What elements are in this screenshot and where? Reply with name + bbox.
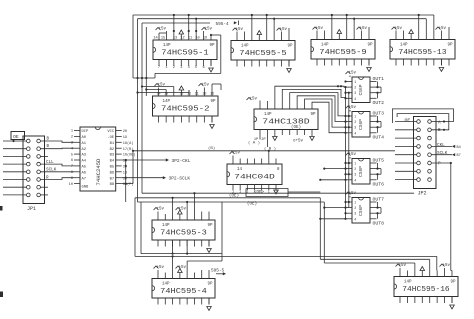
svg-text:17(B): 17(B) bbox=[123, 147, 134, 152]
svg-text:1: 1 bbox=[71, 130, 73, 134]
svg-text:+5v: +5v bbox=[399, 264, 407, 268]
svg-text:9P: 9P bbox=[210, 100, 216, 104]
svg-text:15: 15 bbox=[161, 37, 165, 41]
svg-text:A7: A7 bbox=[82, 177, 87, 181]
svg-text:16: 16 bbox=[210, 93, 214, 97]
svg-text:OUT2: OUT2 bbox=[373, 100, 385, 106]
svg-text:DIP: DIP bbox=[82, 130, 90, 134]
svg-text:1: 1 bbox=[268, 191, 270, 195]
svg-text:o+5v: o+5v bbox=[293, 140, 304, 144]
svg-text:+5v: +5v bbox=[205, 28, 213, 32]
svg-text:2: 2 bbox=[354, 167, 356, 171]
svg-text:+5v: +5v bbox=[349, 192, 357, 196]
svg-text:A3: A3 bbox=[82, 154, 87, 158]
svg-text:SCLK: SCLK bbox=[437, 151, 448, 156]
svg-text:+5v: +5v bbox=[360, 27, 368, 31]
svg-text:CS6P: CS6P bbox=[358, 84, 364, 95]
svg-text:14P: 14P bbox=[400, 44, 408, 48]
svg-text:OE: OE bbox=[13, 134, 19, 140]
svg-text:OUT7: OUT7 bbox=[373, 197, 385, 203]
svg-text:74HC595-9: 74HC595-9 bbox=[319, 49, 366, 57]
svg-text:+5v: +5v bbox=[179, 266, 187, 270]
svg-text:14P: 14P bbox=[241, 45, 249, 49]
svg-text:R: R bbox=[46, 175, 49, 180]
svg-text:2: 2 bbox=[173, 66, 175, 70]
svg-text:9P: 9P bbox=[367, 44, 373, 48]
svg-text:74HC595-3: 74HC595-3 bbox=[160, 229, 207, 237]
svg-text:19: 19 bbox=[123, 136, 127, 140]
svg-text:16: 16 bbox=[203, 37, 207, 41]
svg-text:13: 13 bbox=[173, 37, 177, 41]
svg-text:+5v: +5v bbox=[349, 153, 357, 157]
svg-text:12: 12 bbox=[187, 93, 191, 97]
svg-text:SCLK: SCLK bbox=[46, 168, 57, 173]
svg-text:+5v: +5v bbox=[250, 98, 258, 102]
svg-text:74HC595-2: 74HC595-2 bbox=[161, 105, 209, 113]
svg-text:74HC245D: 74HC245D bbox=[95, 158, 102, 185]
svg-text:1: 1 bbox=[354, 162, 356, 166]
svg-text:16(OE): 16(OE) bbox=[123, 153, 136, 158]
svg-text:1: 1 bbox=[354, 115, 356, 119]
svg-text:3: 3 bbox=[354, 126, 356, 130]
svg-text:P: P bbox=[438, 162, 441, 167]
svg-text:+5v: +5v bbox=[349, 106, 357, 110]
svg-text:CS6P: CS6P bbox=[358, 119, 364, 130]
svg-text:2: 2 bbox=[71, 136, 73, 140]
svg-text:B: B bbox=[438, 128, 441, 133]
svg-text:( B ): ( B ) bbox=[264, 147, 276, 152]
svg-text:20: 20 bbox=[123, 130, 127, 134]
svg-text:74HC138D: 74HC138D bbox=[262, 118, 309, 126]
svg-text:1: 1 bbox=[165, 66, 167, 70]
svg-text:14P: 14P bbox=[162, 224, 170, 228]
svg-text:9P: 9P bbox=[207, 283, 213, 287]
svg-text:2: 2 bbox=[354, 120, 356, 124]
svg-text:+5v: +5v bbox=[159, 28, 167, 32]
svg-text:18(A): 18(A) bbox=[123, 141, 134, 146]
svg-text:OUT5: OUT5 bbox=[373, 158, 385, 164]
svg-text:11(P): 11(P) bbox=[123, 182, 134, 187]
svg-text:<OE>: <OE> bbox=[254, 190, 265, 195]
svg-text:6: 6 bbox=[71, 159, 73, 163]
svg-text:9P: 9P bbox=[447, 44, 453, 48]
svg-text:1: 1 bbox=[246, 191, 248, 195]
svg-text:A6: A6 bbox=[82, 171, 87, 175]
svg-text:1: 1 bbox=[239, 191, 241, 195]
svg-text:3: 3 bbox=[180, 66, 182, 70]
svg-text:OUT1: OUT1 bbox=[373, 76, 385, 82]
svg-text:OUT3: OUT3 bbox=[373, 111, 385, 117]
svg-text:B7: B7 bbox=[457, 154, 461, 158]
svg-text:3P2-CKL: 3P2-CKL bbox=[172, 158, 191, 164]
svg-text:9P: 9P bbox=[207, 224, 213, 228]
svg-text:14P: 14P bbox=[404, 281, 412, 285]
svg-text:595-5: 595-5 bbox=[211, 269, 225, 274]
svg-text:+5v: +5v bbox=[349, 72, 357, 76]
svg-text:5: 5 bbox=[71, 153, 73, 157]
svg-text:2P: 2P bbox=[261, 138, 265, 142]
svg-text:-OE: -OE bbox=[107, 136, 115, 140]
svg-text:+5v: +5v bbox=[157, 208, 165, 212]
svg-text:4: 4 bbox=[354, 97, 356, 101]
svg-text:B7: B7 bbox=[110, 177, 115, 181]
svg-text:3: 3 bbox=[354, 212, 356, 216]
svg-text:+5v: +5v bbox=[233, 152, 241, 156]
svg-text:VCC: VCC bbox=[107, 130, 115, 134]
svg-text:1: 1 bbox=[354, 80, 356, 84]
svg-text:14P: 14P bbox=[264, 113, 272, 117]
svg-text:OE: OE bbox=[405, 118, 411, 124]
svg-text:A0: A0 bbox=[82, 136, 87, 140]
svg-text:B1: B1 bbox=[110, 142, 115, 146]
svg-text:B4: B4 bbox=[457, 146, 461, 150]
svg-text:A2: A2 bbox=[82, 148, 87, 152]
svg-text:OUT8: OUT8 bbox=[373, 221, 385, 227]
svg-text:74HC04D: 74HC04D bbox=[234, 173, 275, 180]
svg-text:B4: B4 bbox=[110, 160, 115, 164]
svg-text:3: 3 bbox=[354, 91, 356, 95]
svg-text:+5v: +5v bbox=[158, 84, 166, 88]
svg-text:A4: A4 bbox=[82, 160, 87, 164]
svg-text:14: 14 bbox=[237, 168, 243, 172]
svg-text:9P: 9P bbox=[209, 44, 215, 48]
svg-text:11: 11 bbox=[195, 93, 199, 97]
svg-text:+5v: +5v bbox=[439, 27, 447, 31]
svg-text:11: 11 bbox=[188, 37, 192, 41]
svg-text:3P2-SCLK: 3P2-SCLK bbox=[169, 176, 191, 182]
svg-text:74HC595-13: 74HC595-13 bbox=[398, 49, 446, 57]
svg-text:14P: 14P bbox=[162, 283, 170, 287]
svg-text:CLL: CLL bbox=[46, 160, 54, 165]
svg-text:10: 10 bbox=[195, 37, 199, 41]
svg-text:( A ): ( A ) bbox=[248, 141, 260, 146]
svg-text:(OE): (OE) bbox=[291, 125, 301, 130]
svg-text:B6: B6 bbox=[110, 171, 115, 175]
svg-text:+5v: +5v bbox=[202, 84, 210, 88]
svg-text:14: 14 bbox=[156, 93, 160, 97]
svg-text:B3: B3 bbox=[110, 154, 115, 158]
svg-text:A1: A1 bbox=[82, 142, 87, 146]
svg-text:595-4: 595-4 bbox=[216, 22, 230, 27]
svg-text:B8: B8 bbox=[110, 183, 115, 187]
svg-text:74HC595-1: 74HC595-1 bbox=[161, 49, 208, 57]
svg-text:4: 4 bbox=[354, 217, 356, 221]
svg-text:CS6P: CS6P bbox=[358, 166, 364, 177]
svg-text:4: 4 bbox=[354, 178, 356, 182]
svg-text:A5: A5 bbox=[82, 166, 87, 170]
svg-text:A: A bbox=[438, 120, 441, 125]
svg-text:OUT4: OUT4 bbox=[373, 135, 385, 141]
svg-text:74HC595-16: 74HC595-16 bbox=[402, 286, 449, 294]
svg-text:(B): (B) bbox=[208, 146, 215, 151]
svg-text:9P: 9P bbox=[310, 113, 316, 117]
svg-text:12: 12 bbox=[180, 37, 184, 41]
svg-text:15: 15 bbox=[164, 93, 168, 97]
svg-text:14P: 14P bbox=[321, 44, 329, 48]
svg-text:6: 6 bbox=[202, 66, 204, 70]
svg-text:74HC595-4: 74HC595-4 bbox=[160, 288, 207, 296]
svg-text:B2: B2 bbox=[110, 148, 115, 152]
svg-text:OUT6: OUT6 bbox=[373, 182, 385, 188]
svg-text:14P: 14P bbox=[163, 100, 171, 104]
svg-text:14P: 14P bbox=[163, 44, 171, 48]
svg-text:+5v: +5v bbox=[280, 28, 288, 32]
svg-text:10: 10 bbox=[69, 183, 73, 187]
svg-text:(OE): (OE) bbox=[247, 202, 257, 207]
svg-text:1: 1 bbox=[354, 201, 356, 205]
svg-text:13: 13 bbox=[179, 93, 183, 97]
svg-text:JP2: JP2 bbox=[418, 191, 427, 197]
svg-text:+5v: +5v bbox=[157, 266, 165, 270]
svg-text:2: 2 bbox=[354, 206, 356, 210]
svg-text:(OE): (OE) bbox=[229, 194, 239, 199]
svg-text:2: 2 bbox=[354, 86, 356, 90]
svg-text:CKL: CKL bbox=[437, 143, 445, 148]
svg-text:B5: B5 bbox=[110, 166, 115, 170]
svg-text:74HC595-5: 74HC595-5 bbox=[239, 50, 286, 58]
svg-text:9P: 9P bbox=[450, 281, 456, 285]
svg-text:+5v: +5v bbox=[179, 208, 187, 212]
svg-text:JP1: JP1 bbox=[27, 206, 36, 212]
svg-text:GNB: GNB bbox=[82, 185, 90, 189]
svg-text:13: 13 bbox=[123, 171, 127, 175]
svg-text:10: 10 bbox=[202, 93, 206, 97]
svg-text:4: 4 bbox=[354, 131, 356, 135]
svg-text:14: 14 bbox=[153, 37, 157, 41]
svg-text:5: 5 bbox=[195, 66, 197, 70]
svg-text:CS6P: CS6P bbox=[358, 205, 364, 216]
svg-text:7: 7 bbox=[158, 66, 160, 70]
svg-text:4: 4 bbox=[188, 66, 190, 70]
svg-text:9P: 9P bbox=[287, 45, 293, 49]
svg-text:+5v: +5v bbox=[443, 264, 451, 268]
svg-text:3: 3 bbox=[354, 173, 356, 177]
